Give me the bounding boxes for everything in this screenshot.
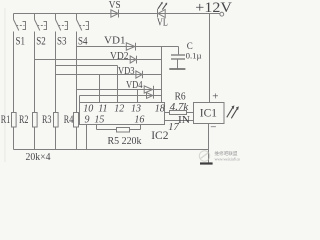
svg-text:10: 10 — [83, 103, 93, 114]
wire S3 to VD3 — [56, 74, 143, 76]
svg-text:13: 13 — [131, 103, 141, 114]
svg-text:VD3: VD3 — [118, 66, 135, 77]
svg-text:VD2: VD2 — [110, 51, 129, 62]
wire diode bus to pin 18 — [161, 47, 163, 103]
svg-text:4.7k: 4.7k — [170, 102, 189, 113]
ground under capacitor — [169, 68, 185, 70]
wire R2 bottom — [34, 127, 36, 150]
svg-text:16: 16 — [134, 114, 144, 125]
switch S1 — [14, 14, 19, 113]
resistor R3 — [54, 113, 59, 128]
wire S4 to VD1 — [77, 46, 136, 48]
svg-text:R2: R2 — [19, 114, 29, 126]
wire ground bus — [14, 149, 209, 151]
IC1 output arrows — [227, 107, 238, 119]
wire +12V drop — [209, 14, 211, 103]
watermark logo — [199, 150, 243, 162]
wire pin 10 stub and strap — [80, 96, 154, 103]
wire VD2 cathode — [137, 59, 162, 61]
svg-text:S4: S4 — [78, 33, 88, 47]
diode VD3 — [136, 71, 142, 78]
LED VL arrows — [158, 3, 167, 10]
wire IC1 to ground — [208, 124, 210, 163]
switch S3 — [56, 14, 61, 113]
svg-text:18: 18 — [155, 103, 165, 114]
wire VD3 cathode — [143, 74, 162, 76]
svg-text:15: 15 — [94, 114, 104, 125]
svg-text:9: 9 — [85, 114, 90, 125]
svg-text:R5 220k: R5 220k — [108, 136, 142, 147]
wire top bus left — [14, 13, 221, 15]
resistor R1 — [12, 113, 17, 128]
wire R3 bottom — [55, 127, 57, 150]
diode small on strap — [147, 93, 153, 99]
svg-text:VD4: VD4 — [126, 80, 143, 91]
LED VL — [157, 9, 159, 18]
svg-text:−: − — [210, 121, 216, 133]
diode VS — [111, 10, 118, 17]
svg-text:VL: VL — [157, 18, 168, 29]
svg-text:R1: R1 — [1, 114, 11, 126]
IC1 box — [194, 103, 225, 124]
resistor R6 — [165, 112, 194, 114]
wire VD1 cathode row — [136, 46, 179, 48]
svg-text:12: 12 — [114, 103, 124, 114]
svg-text:VS: VS — [109, 0, 121, 11]
svg-text:11: 11 — [98, 103, 107, 114]
capacitor C — [178, 47, 180, 55]
svg-text:www.weixiu8.com: www.weixiu8.com — [215, 158, 241, 162]
wire S3 branch to pin 12 — [56, 66, 118, 103]
svg-text:R3: R3 — [42, 114, 52, 126]
svg-text:IC1: IC1 — [200, 107, 218, 119]
wire R1 bottom — [13, 127, 15, 150]
svg-text:+12V: +12V — [195, 0, 232, 16]
svg-text:S3: S3 — [57, 33, 67, 47]
diode VD1 — [126, 43, 135, 50]
svg-text:R4: R4 — [64, 114, 74, 126]
IC2 box — [80, 103, 165, 125]
svg-text:VD1: VD1 — [104, 35, 126, 46]
svg-text:S1: S1 — [16, 33, 26, 47]
wire pin 9 to ground bus — [86, 125, 88, 150]
wire pin 17 to IC1 — [165, 120, 194, 122]
svg-text:S2: S2 — [36, 33, 46, 47]
svg-text:+: + — [212, 91, 218, 103]
wire S4 to VD4 — [77, 89, 154, 91]
diode VD2 — [130, 56, 136, 63]
switch S4 — [77, 14, 82, 113]
ground bar — [200, 162, 213, 164]
svg-text:0.1µ: 0.1µ — [186, 50, 202, 60]
svg-text:C: C — [187, 41, 193, 51]
wire R4 bottom — [76, 127, 78, 150]
svg-text:IC2: IC2 — [151, 130, 169, 142]
node +12V terminal — [220, 12, 224, 16]
svg-text:R6: R6 — [175, 91, 186, 102]
wire pin 13 drop — [137, 90, 139, 103]
switch S2 — [35, 14, 40, 113]
resistor R2 — [33, 113, 38, 128]
svg-text:20k×4: 20k×4 — [26, 152, 51, 163]
resistor R5 — [97, 125, 141, 130]
svg-text:维修吧联盟: 维修吧联盟 — [215, 150, 238, 157]
svg-text:IN: IN — [178, 115, 190, 126]
scan edge artifact — [4, 8, 6, 162]
paper background — [0, 0, 240, 165]
wire S2 to VD2 — [35, 59, 137, 61]
wire VD4 cathode — [154, 89, 162, 91]
diode VD4 — [144, 86, 152, 93]
resistor R4 — [74, 113, 79, 128]
wire pin 11 drop — [99, 75, 101, 103]
